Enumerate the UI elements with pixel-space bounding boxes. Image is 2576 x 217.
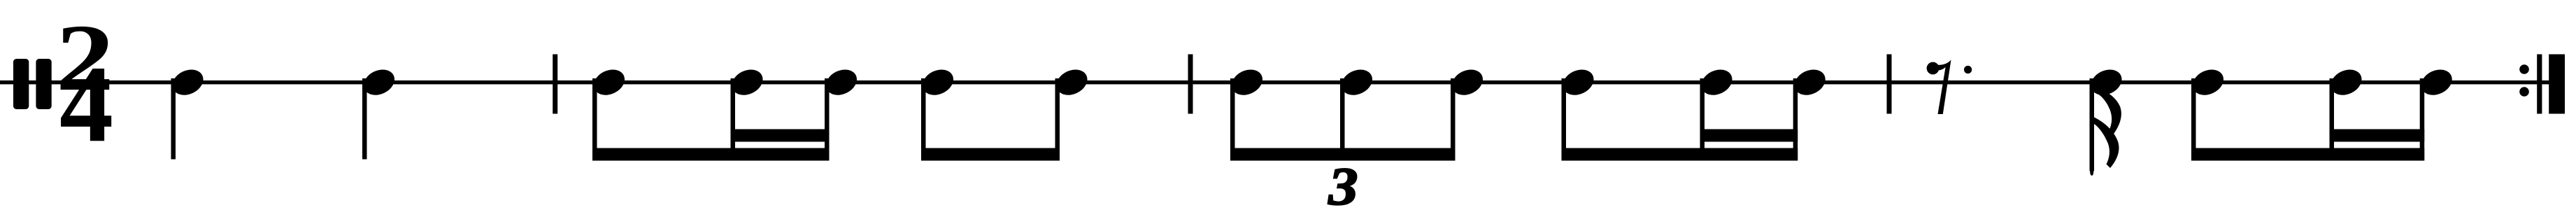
note 13 stem [1793,78,1798,161]
note 12 sixteenth: head [1698,65,1737,100]
beam E primary (notes 15-17) [2191,148,2424,161]
note 11 eighth: head [1559,65,1598,100]
note 6 eighth: head [918,65,958,100]
note 7 stem [1055,78,1060,161]
note 16 sixteenth: head [2327,65,2366,100]
end thin barline [2537,55,2542,114]
note 2 stem [362,78,367,160]
note 14 stem [2090,78,2095,171]
triplet numeral 3 [1328,157,1358,216]
note 4 stem [731,78,736,161]
note 17 stem [2420,78,2425,161]
note 3 stem [592,78,597,161]
note 10 stem [1451,78,1456,161]
note 13 sixteenth: head [1791,65,1830,100]
note 12 stem [1700,78,1705,161]
beam B (notes 6-7) [921,148,1060,161]
note 1 quarter: head [169,65,208,100]
note 9 stem [1340,78,1345,161]
note 10 triplet eighth: head [1448,65,1487,100]
beam A secondary (notes 4-5) [731,129,830,142]
beam C triplet (notes 8-10) [1230,148,1456,161]
beam D secondary (notes 12-13) [1700,129,1798,142]
note 9 triplet eighth: head [1337,65,1376,100]
svg-text:3: 3 [1328,157,1358,216]
start double thick bar 1 [13,59,29,109]
note 7 eighth: head [1053,65,1092,100]
note 15 stem [2191,78,2196,161]
note 4 sixteenth: head [728,65,767,100]
note 5 stem [825,78,830,161]
note 1 stem [171,78,176,160]
note 6 stem [921,78,926,161]
augmentation dot for rest [1964,66,1972,73]
time signature 2 [56,6,115,111]
beam D primary (notes 11-13) [1562,148,1798,161]
note 5 sixteenth: head [822,65,861,100]
barline 3 [1887,55,1892,114]
note 17 sixteenth: head [2417,65,2456,100]
note 14 stem taper [2090,168,2095,176]
time signature 4 [59,43,113,164]
repeat dot upper [2519,64,2529,74]
barline 2 [1188,55,1193,114]
start double thick bar 2 [36,59,51,109]
beam E secondary (notes 16-17) [2330,129,2425,142]
svg-text:4: 4 [59,43,113,164]
note 11 stem [1562,78,1567,161]
note 14 sixteenth flag upper [2093,86,2121,135]
eighth rest [1927,62,1940,75]
note 16 stem [2330,78,2335,161]
note 2 quarter: head [360,65,399,100]
note 15 eighth: head [2189,65,2228,100]
note 8 triplet eighth: head [1227,65,1267,100]
staff line [0,80,2565,85]
repeat dot lower [2519,87,2529,97]
note 3 eighth: head [590,65,629,100]
note 14 sixteenth flag lower [2093,117,2119,168]
note 14 sixteenth with flags: head [2087,65,2126,100]
end thick barline [2549,55,2565,114]
note 8 stem [1230,78,1235,161]
beam A primary (notes 3-5) [592,148,830,161]
barline 1 [553,55,557,114]
